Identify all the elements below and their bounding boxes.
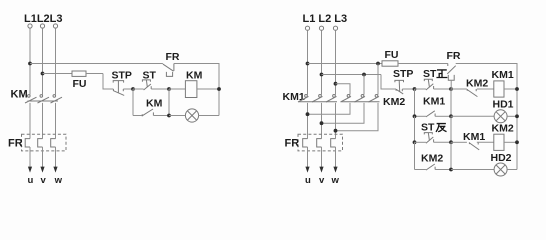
- arrow w: [53, 167, 57, 173]
- wire phase R-L3 upper: [335, 30, 337, 94]
- wire to ST-fwd: [415, 88, 426, 90]
- fuse FU: [72, 71, 103, 76]
- node HD1 rail: [515, 114, 519, 118]
- wire column A3: [414, 142, 416, 169]
- node pole1 return: [306, 112, 310, 116]
- svg-text:FR: FR: [8, 138, 23, 150]
- thermal contact FR right (NC): [447, 64, 455, 90]
- node row1 mid: [449, 87, 453, 91]
- svg-text:v: v: [319, 175, 325, 186]
- node pole2 return: [320, 121, 324, 125]
- wire coil KM1 to rail: [504, 88, 517, 90]
- svg-text:KM: KM: [146, 98, 163, 110]
- wire L3 jumper: [336, 84, 351, 95]
- pushbutton STP (NC stop): [113, 81, 133, 96]
- wire KM2 pole3 column: [377, 64, 379, 95]
- wire L1 jumper to FU: [308, 63, 383, 65]
- svg-text:STP: STP: [393, 68, 413, 80]
- wire latch column A1: [414, 89, 416, 116]
- arrow w right: [333, 167, 337, 173]
- wire to KM1 interlock: [451, 141, 467, 143]
- terminal L3: [53, 24, 57, 28]
- wire control rail top: [30, 63, 163, 65]
- wire phase 2 mid: [42, 103, 44, 139]
- lamp HD2: [494, 163, 507, 176]
- svg-text:KM: KM: [11, 88, 28, 100]
- svg-text:w: w: [54, 175, 63, 186]
- node coil KM1 rail: [515, 87, 519, 91]
- svg-text:KM2: KM2: [466, 78, 488, 90]
- wire KM2 pole2 return: [322, 103, 365, 123]
- pushbutton ST-forward (NO): [424, 79, 451, 90]
- node ST-rev left: [413, 140, 417, 144]
- lamp indicator: [185, 109, 198, 122]
- contactor KM main pole 1: [25, 95, 37, 103]
- wire coil KM2 to rail: [504, 141, 517, 143]
- node latch B1: [449, 114, 453, 118]
- wire phase R1 lower: [307, 147, 309, 167]
- wire to ST-rev: [415, 141, 426, 143]
- node pole3 return: [334, 129, 338, 133]
- wire phase R1 mid: [307, 103, 309, 139]
- wire coil feed: [169, 88, 185, 90]
- node L2 tap: [41, 72, 45, 76]
- arrow u right: [305, 167, 309, 173]
- svg-text:FU: FU: [73, 78, 87, 90]
- coil KM2: [494, 134, 504, 150]
- node L1 tap: [28, 62, 32, 66]
- heater element 2: [38, 139, 43, 147]
- node ST-rev right: [449, 140, 453, 144]
- contactor KM main pole 3: [51, 95, 63, 103]
- svg-text:HD2: HD2: [491, 152, 512, 164]
- wire KM2 pole1 return: [308, 103, 351, 114]
- lamp HD1: [494, 110, 507, 123]
- linkage bar KM: [28, 100, 59, 102]
- node row1 left: [413, 87, 417, 91]
- wire KM2 pole3 return: [336, 103, 379, 131]
- svg-text:KM1: KM1: [423, 96, 445, 108]
- contact KM2 latch (NO): [415, 164, 452, 170]
- heater element 1: [25, 139, 30, 147]
- wire phase R-L1 upper: [307, 30, 309, 94]
- relay FR dashed box right: [298, 134, 343, 151]
- wire to lamp HD1: [451, 115, 494, 117]
- node coil KM2 rail: [515, 140, 519, 144]
- wire control drop: [381, 75, 396, 90]
- linkage bar KM2: [342, 101, 380, 103]
- heater element R1: [303, 139, 308, 147]
- contactor KM1 pole 2: [312, 95, 323, 102]
- node L1 tap right: [306, 62, 310, 66]
- wire lamp to rail: [199, 115, 219, 117]
- wire column A2: [414, 116, 416, 142]
- terminal L1: [28, 24, 32, 28]
- glyph zheng: [437, 70, 447, 78]
- node STP-ST junction: [131, 87, 135, 91]
- svg-text:STP: STP: [112, 70, 132, 82]
- svg-text:v: v: [41, 175, 47, 186]
- wire rail after FR right: [456, 64, 517, 170]
- linkage bar KM1: [299, 101, 337, 103]
- wire to lamp: [169, 115, 186, 117]
- contactor KM2 pole 1: [341, 95, 352, 102]
- svg-text:FU: FU: [385, 49, 399, 61]
- node latch-lamp: [167, 114, 171, 118]
- wire phase L2 upper: [42, 28, 44, 94]
- svg-text:L1L2L3: L1L2L3: [24, 13, 63, 25]
- svg-text:KM2: KM2: [383, 96, 405, 108]
- svg-text:FR: FR: [166, 51, 180, 63]
- wire latch column B1: [450, 89, 452, 116]
- node ST out: [167, 87, 171, 91]
- svg-text:L1 L2 L3: L1 L2 L3: [303, 13, 348, 25]
- coil KM: [185, 81, 197, 98]
- fuse FU right: [382, 61, 448, 66]
- pushbutton ST-reverse (NO): [424, 133, 451, 144]
- svg-text:ST: ST: [423, 68, 437, 80]
- node latch A1: [413, 114, 417, 118]
- svg-text:ST: ST: [143, 70, 157, 82]
- thermal contact FR (NC): [163, 64, 174, 77]
- svg-text:KM1: KM1: [492, 69, 514, 81]
- svg-text:KM: KM: [186, 70, 203, 82]
- wire phase 3 mid: [55, 103, 57, 139]
- wire drop to STP: [103, 74, 113, 90]
- wire phase R2 mid: [321, 103, 323, 139]
- svg-text:FR: FR: [285, 138, 300, 150]
- arrow v: [40, 167, 44, 173]
- wire phase R3 mid: [335, 103, 337, 139]
- wire column B2: [450, 116, 452, 142]
- arrow u: [28, 167, 32, 173]
- heater element R2: [317, 139, 322, 147]
- wire to ST: [133, 88, 144, 90]
- glyph fan: [436, 124, 446, 132]
- svg-text:ST: ST: [421, 122, 435, 134]
- pushbutton STP right (NC stop): [395, 80, 415, 94]
- wire L2 jumper: [322, 74, 382, 76]
- wire latch branch left: [132, 89, 134, 116]
- wire phase R-L2 upper: [321, 30, 323, 94]
- terminal L3 right: [333, 26, 337, 30]
- heater element R3: [331, 139, 336, 147]
- wire coil to rail: [197, 88, 219, 90]
- wire phase 3 lower: [55, 147, 57, 167]
- contactor KM1 pole 1: [298, 95, 309, 102]
- heater element 3: [51, 139, 56, 147]
- svg-text:u: u: [28, 175, 34, 186]
- wire lamp HD2 to rail: [507, 169, 517, 171]
- wire phase 1 lower: [29, 147, 31, 167]
- node KM2 pole3 feed: [376, 62, 380, 66]
- terminal L2: [40, 24, 44, 28]
- contact KM1 latch (NO): [415, 111, 452, 117]
- contact KM2 interlock (NC): [467, 89, 494, 97]
- wire to KM2 interlock: [451, 88, 467, 90]
- terminal L1 right: [305, 26, 309, 30]
- svg-text:KM1: KM1: [283, 91, 305, 103]
- node L3 tap right: [334, 82, 338, 86]
- svg-text:KM2: KM2: [492, 122, 514, 134]
- wire phase R2 lower: [321, 147, 323, 167]
- wire lamp HD1 to rail: [507, 115, 517, 117]
- wire phase L3 upper: [55, 28, 57, 94]
- wire phase L1 upper: [29, 28, 31, 94]
- wire phase 2 lower: [42, 147, 44, 167]
- wire phase R3 lower: [335, 147, 337, 167]
- node latch B3: [449, 168, 453, 172]
- svg-text:KM1: KM1: [463, 131, 485, 143]
- wire latch branch right: [168, 89, 170, 116]
- contactor KM2 pole 2: [355, 95, 366, 102]
- node L2 tap right: [320, 73, 324, 77]
- wire KM2 pole2 column: [363, 75, 365, 95]
- coil KM1: [494, 81, 504, 97]
- pushbutton ST (NO start): [142, 80, 169, 90]
- contact KM1 interlock (NC): [469, 142, 493, 150]
- relay FR dashed box: [22, 134, 67, 151]
- arrow v right: [319, 167, 323, 173]
- terminal L2 right: [319, 26, 323, 30]
- contactor KM2 pole 3: [369, 95, 380, 102]
- wire phase 1 mid: [29, 103, 31, 139]
- node coil-rail: [217, 87, 221, 91]
- wire to lamp HD2: [451, 169, 494, 171]
- svg-text:u: u: [305, 175, 311, 186]
- svg-text:FR: FR: [447, 50, 461, 62]
- wire to fuse: [43, 73, 73, 75]
- node KM2 pole2 feed: [362, 73, 366, 77]
- contact KM auxiliary latch (NO): [133, 109, 169, 116]
- svg-text:KM2: KM2: [421, 153, 443, 165]
- svg-text:HD1: HD1: [493, 99, 514, 111]
- contactor KM main pole 2: [38, 95, 50, 103]
- wire rail after FR: [174, 64, 219, 116]
- wire column B3: [450, 142, 452, 169]
- contactor KM1 pole 3: [326, 95, 337, 102]
- svg-text:w: w: [331, 175, 340, 186]
